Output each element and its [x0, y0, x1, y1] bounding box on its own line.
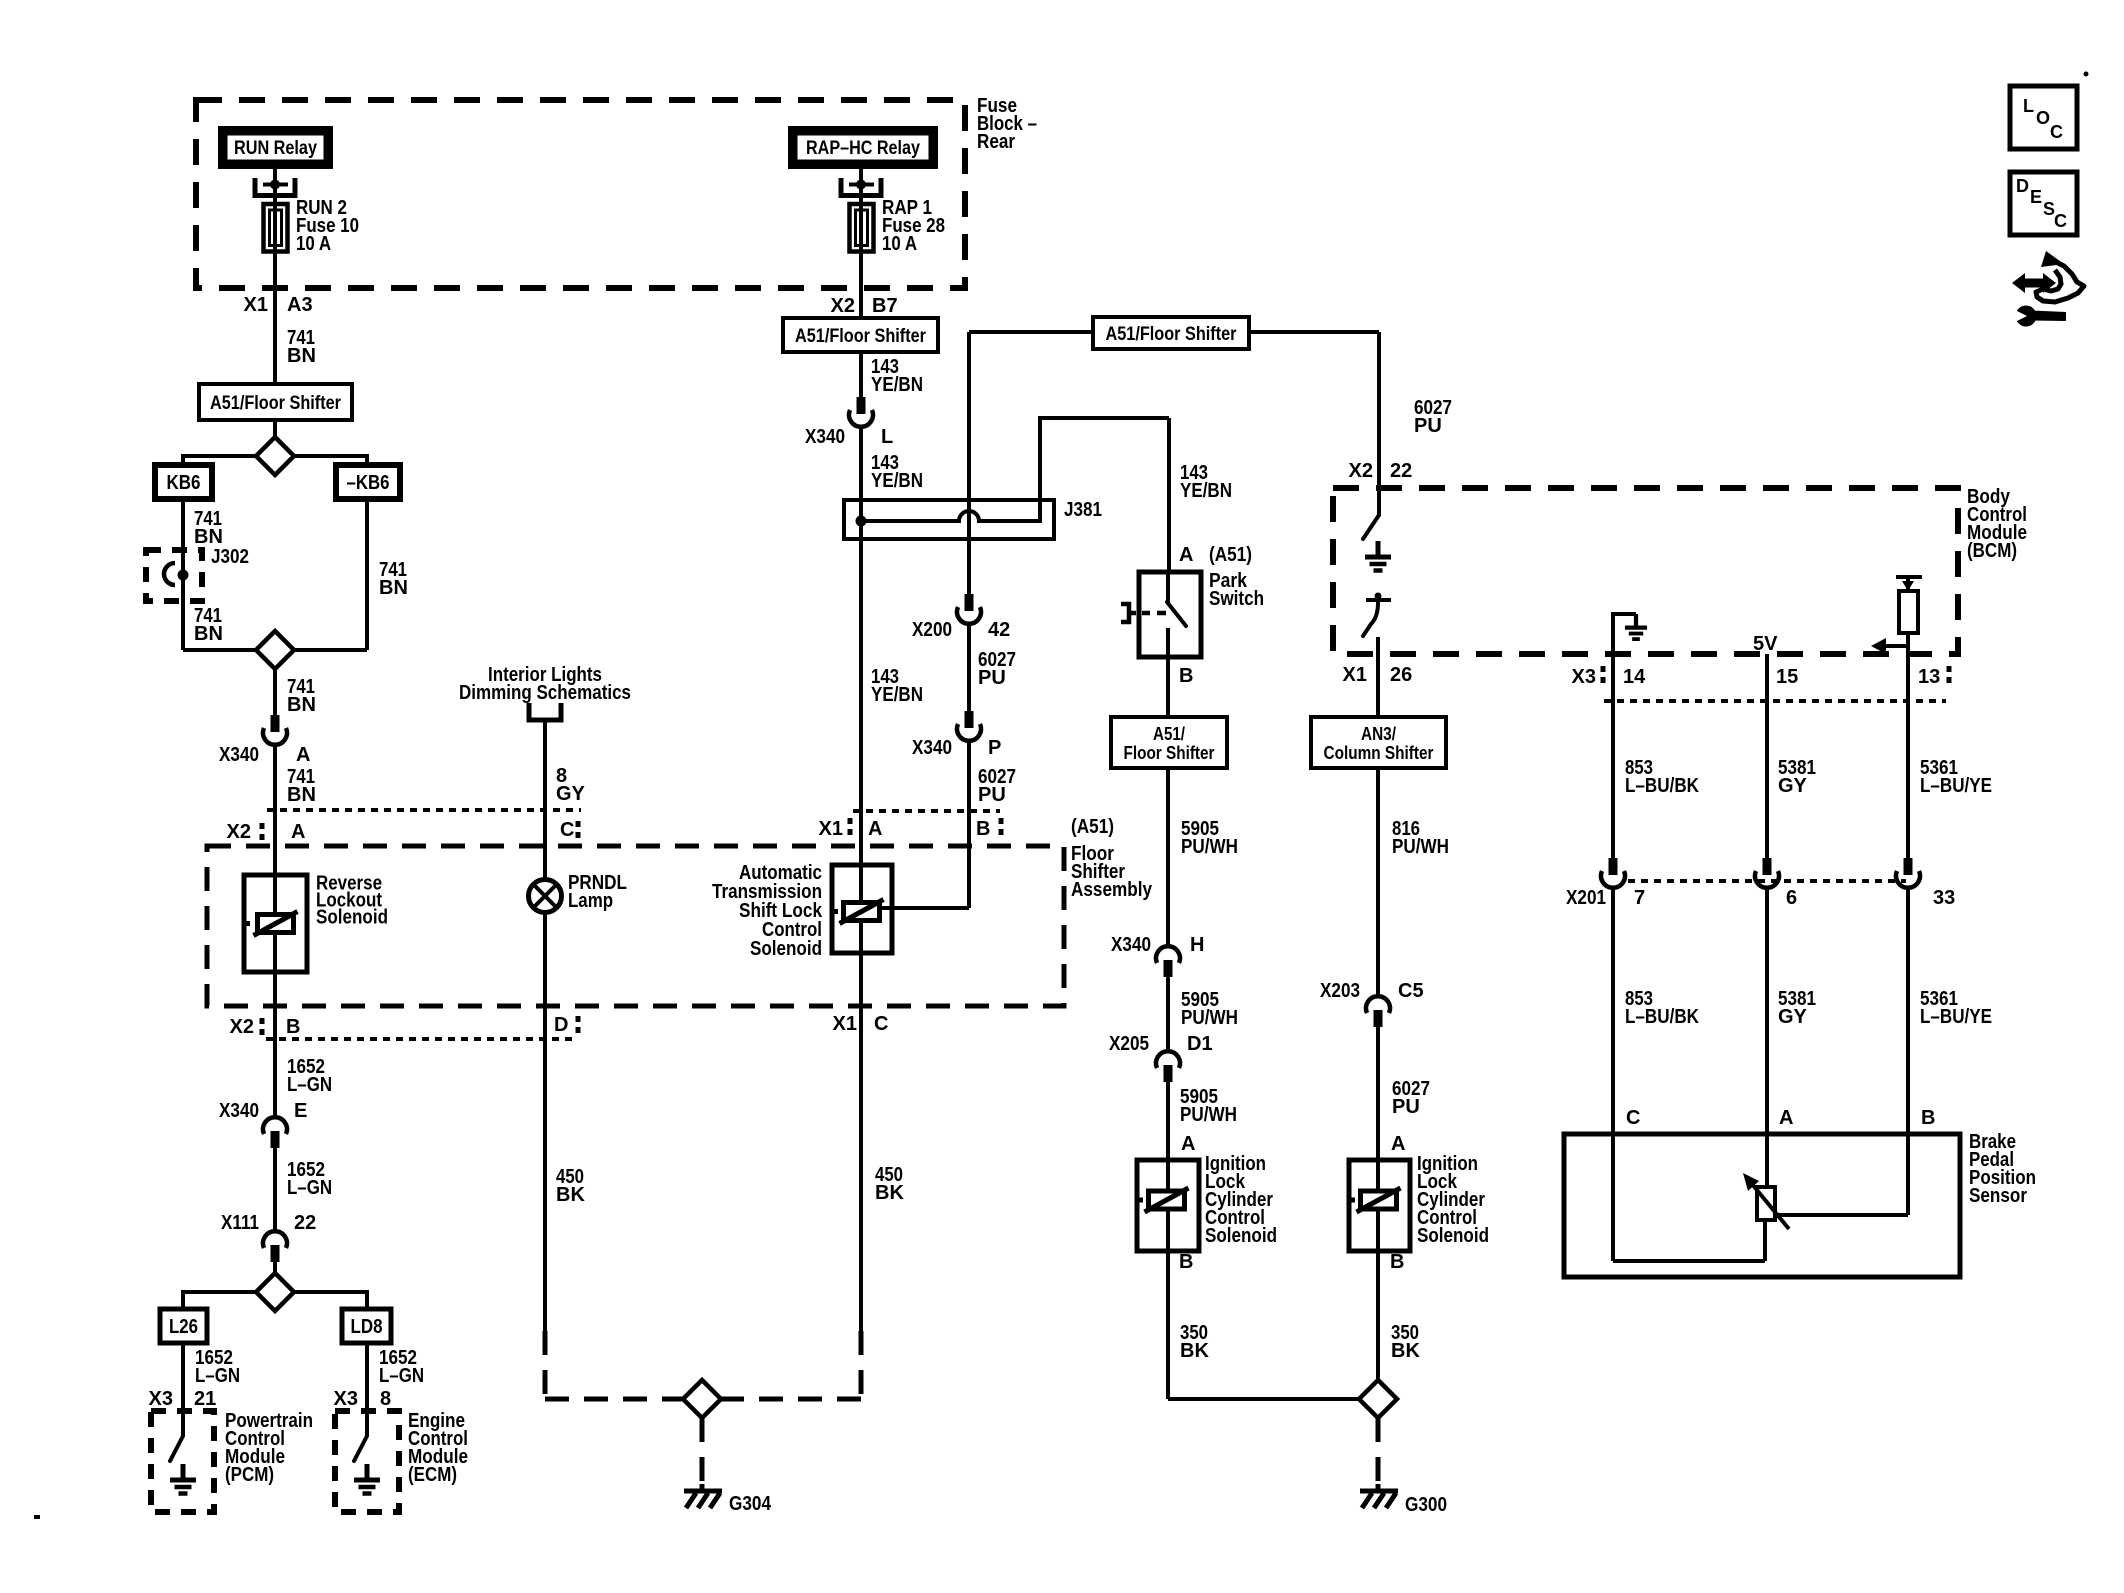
svg-text:B7: B7 [872, 295, 898, 317]
svg-text:X340: X340 [219, 1100, 259, 1122]
svg-text:D: D [554, 1014, 568, 1036]
BCM internal wiper arrow [1876, 644, 1908, 648]
svg-text:(A51): (A51) [1071, 816, 1114, 838]
svg-text:B: B [286, 1016, 300, 1038]
svg-text:BN: BN [287, 784, 316, 806]
svg-text:B: B [1921, 1107, 1935, 1129]
svg-text:Solenoid: Solenoid [316, 907, 388, 929]
potentiometer wiper arrow [1752, 1184, 1789, 1229]
svg-text:BK: BK [1180, 1340, 1209, 1362]
svg-text:PU: PU [1414, 415, 1442, 437]
RAP relay terminal bracket [839, 178, 844, 198]
svg-text:A51/Floor Shifter: A51/Floor Shifter [795, 326, 927, 347]
svg-text:GY: GY [1778, 1006, 1808, 1028]
body control module dashed enclosure [1333, 488, 1958, 654]
wire L26 to PCM (1652 L-GN) [181, 1343, 185, 1436]
relay RAP-HC Relay [788, 126, 938, 169]
connector X201 pin 6 [1755, 858, 1779, 888]
stray mark [2084, 72, 2089, 77]
svg-text:A3: A3 [287, 294, 313, 316]
svg-text:BN: BN [287, 345, 316, 367]
BCM internal voltage bar and resistor (pin 13 branch) [1906, 577, 1910, 591]
svg-text:Assembly: Assembly [1071, 879, 1153, 901]
lamp PRNDL [529, 880, 562, 913]
svg-text:L–BU/YE: L–BU/YE [1920, 1006, 1992, 1028]
wire 143 YE/BN down through J381 to shift lock solenoid [859, 427, 863, 953]
svg-text:X1: X1 [244, 294, 268, 316]
reverse lockout solenoid [244, 875, 307, 972]
node LD8 [342, 1309, 391, 1343]
dashed wire to ground splice [859, 1331, 864, 1399]
svg-text:X201: X201 [1566, 887, 1606, 909]
svg-text:X2: X2 [227, 821, 251, 843]
brake pedal position sensor box [1564, 1134, 1960, 1277]
svg-text:7: 7 [1634, 887, 1645, 909]
svg-text:B: B [1390, 1251, 1404, 1273]
svg-text:33: 33 [1933, 887, 1955, 909]
icon LOC box [2010, 86, 2077, 149]
svg-text:BK: BK [556, 1184, 585, 1206]
svg-text:YE/BN: YE/BN [871, 374, 923, 396]
powertrain control module dashed box [151, 1411, 214, 1512]
BCM internal switch blade (to ground) [1363, 515, 1379, 539]
reference bracket [529, 703, 561, 720]
svg-text:Solenoid: Solenoid [750, 938, 822, 960]
wire 741 BN to reverse lockout solenoid [273, 745, 277, 1117]
svg-text:E: E [2030, 187, 2042, 207]
svg-text:A51/: A51/ [1153, 724, 1185, 744]
svg-text:C: C [2054, 211, 2067, 231]
svg-text:D1: D1 [1187, 1033, 1213, 1055]
wire 6027 PU to shift lock solenoid [967, 741, 971, 908]
svg-text:X111: X111 [221, 1212, 259, 1234]
splice J302 dashed box [146, 550, 202, 601]
engine control module dashed box [335, 1411, 399, 1512]
splice diamond at G300 [1359, 1380, 1397, 1418]
wire branch to L26 and LD8 [183, 1292, 367, 1309]
svg-text:X3: X3 [149, 1388, 173, 1410]
splice J381 box [844, 500, 1054, 539]
wire 350 BK (right solenoid to splice) [1376, 1251, 1380, 1380]
dashed wire to ground G300 [1376, 1418, 1381, 1485]
net label box A51/Floor Shifter (center) [783, 318, 938, 352]
fuse RAP 1, Fuse 28, 10 A [850, 204, 874, 252]
BCM internal ground (pin 14 branch) [1613, 614, 1636, 654]
svg-text:X203: X203 [1320, 980, 1360, 1002]
svg-text:C: C [1626, 1107, 1640, 1129]
J381 internal jumper with hop [856, 516, 867, 527]
wire 143 YE/BN to park switch [1167, 418, 1171, 573]
node L26 [160, 1309, 207, 1343]
splice J302 hook and junction dot [164, 563, 175, 585]
svg-text:PU/WH: PU/WH [1181, 1007, 1238, 1029]
wire 5381 GY (BCM to X201) [1765, 654, 1769, 858]
wire 853 L-BU/BK (X201 to sensor) [1611, 888, 1615, 1134]
svg-text:A: A [296, 744, 310, 766]
PCM internal ground [170, 1464, 196, 1494]
wire 5905 PU/WH to ignition lock solenoid [1166, 1082, 1170, 1160]
svg-text:L: L [2023, 96, 2034, 116]
wire from A51 box to splice [273, 420, 277, 437]
svg-text:Switch: Switch [1209, 588, 1264, 610]
svg-text:26: 26 [1390, 664, 1412, 686]
svg-text:L26: L26 [169, 1316, 198, 1338]
ECM internal switch blade [354, 1436, 367, 1461]
sensor internal potentiometer [1765, 1134, 1769, 1187]
icon DESC box [2010, 172, 2077, 235]
svg-text:X1: X1 [833, 1013, 857, 1035]
wire LD8 to ECM (1652 L-GN) [365, 1343, 369, 1436]
svg-text:6: 6 [1786, 887, 1797, 909]
automatic transmission shift lock control solenoid [832, 865, 892, 953]
wire A51/Floor Shifter right branch (top horizontal) [969, 330, 1379, 334]
svg-text:PU/WH: PU/WH [1180, 1104, 1237, 1126]
svg-text:L: L [881, 426, 893, 448]
wire 5381 GY (X201 to sensor) [1765, 888, 1769, 1134]
fuse block rear dashed enclosure [196, 100, 965, 288]
wire 450 BK from PRNDL lamp [543, 913, 547, 1331]
switch Park Switch [1139, 572, 1201, 657]
wire branch to KB6 and -KB6 [183, 456, 367, 465]
svg-text:BN: BN [194, 623, 223, 645]
svg-text:C5: C5 [1398, 980, 1424, 1002]
svg-text:Solenoid: Solenoid [1417, 1225, 1489, 1247]
svg-text:A: A [1181, 1133, 1195, 1155]
svg-text:X340: X340 [912, 737, 952, 759]
svg-text:PU: PU [978, 667, 1006, 689]
wire rejoining splice [183, 648, 367, 652]
wire 5905 PU/WH to X340-H [1166, 768, 1170, 946]
node -KB6 [336, 465, 400, 499]
svg-text:(A51): (A51) [1209, 544, 1252, 566]
wire 450 BK from shift lock solenoid [859, 953, 863, 1331]
ECM internal ground [354, 1464, 380, 1494]
svg-text:X205: X205 [1109, 1033, 1149, 1055]
svg-text:O: O [2036, 108, 2050, 128]
svg-text:D: D [2016, 176, 2029, 196]
svg-text:X2: X2 [230, 1016, 254, 1038]
svg-text:PU: PU [1392, 1096, 1420, 1118]
RUN relay terminal bracket [253, 178, 258, 198]
svg-text:L–BU/YE: L–BU/YE [1920, 775, 1992, 797]
svg-text:A: A [291, 821, 305, 843]
svg-text:Lamp: Lamp [568, 890, 613, 912]
svg-text:X1: X1 [1343, 664, 1367, 686]
svg-text:22: 22 [1390, 460, 1412, 482]
icon double arrow with wrench [2012, 273, 2056, 293]
wire 143 YE/BN from A51 box to X340 [859, 352, 863, 398]
ground G300 [1360, 1484, 1398, 1508]
connector X200 pin 42 [957, 594, 981, 624]
svg-text:BN: BN [379, 577, 408, 599]
svg-text:X3: X3 [1572, 666, 1596, 688]
svg-text:L–BU/BK: L–BU/BK [1625, 1006, 1699, 1028]
svg-text:PU/WH: PU/WH [1181, 836, 1238, 858]
svg-text:J381: J381 [1064, 499, 1102, 521]
svg-text:YE/BN: YE/BN [871, 470, 923, 492]
svg-text:(PCM): (PCM) [225, 1464, 274, 1486]
svg-text:YE/BN: YE/BN [871, 684, 923, 706]
net label box A51/Floor Shifter (right) [1093, 317, 1249, 349]
net label box A51/Floor Shifter [199, 384, 352, 420]
connector X201 pin 33 [1896, 858, 1920, 888]
wire from RUN Relay to A51/Floor Shifter (741 BN) [273, 169, 277, 384]
svg-text:L–GN: L–GN [287, 1074, 332, 1096]
svg-text:BN: BN [287, 694, 316, 716]
splice diamond (741 BN rejoin) [256, 631, 294, 669]
svg-text:13: 13 [1918, 666, 1940, 688]
svg-text:C: C [560, 819, 574, 841]
svg-text:A: A [1779, 1107, 1793, 1129]
svg-text:YE/BN: YE/BN [1180, 480, 1232, 502]
wire 6027 PU down to BCM [1377, 332, 1381, 515]
svg-text:Sensor: Sensor [1969, 1185, 2027, 1207]
wire to splice diamond [273, 1262, 277, 1273]
svg-text:L–BU/BK: L–BU/BK [1625, 775, 1699, 797]
wire 816 PU/WH to X203 [1376, 768, 1380, 996]
svg-text:AN3/: AN3/ [1361, 724, 1396, 744]
dashed wire to ground splice [543, 1331, 548, 1399]
svg-text:X2: X2 [831, 295, 855, 317]
splice diamond (741 BN branch) [256, 437, 294, 475]
svg-text:PU: PU [978, 784, 1006, 806]
svg-text:Rear: Rear [977, 131, 1015, 153]
svg-text:X340: X340 [805, 426, 845, 448]
svg-text:(ECM): (ECM) [408, 1464, 457, 1486]
wire 853 L-BU/BK (BCM to X201) [1611, 654, 1615, 858]
svg-text:B: B [1179, 665, 1193, 687]
svg-text:22: 22 [294, 1212, 316, 1234]
wire KB6 down through J302 (741 BN) [181, 499, 185, 650]
connector X340 pin A [263, 715, 287, 745]
ignition lock cylinder control solenoid (left) [1137, 1160, 1199, 1251]
BCM internal ground [1365, 541, 1391, 571]
svg-text:(BCM): (BCM) [1967, 540, 2017, 562]
svg-text:Column Shifter: Column Shifter [1324, 743, 1434, 763]
svg-text:J302: J302 [211, 546, 249, 568]
svg-text:A: A [868, 818, 882, 840]
svg-text:21: 21 [194, 1388, 216, 1410]
svg-text:GY: GY [556, 783, 586, 805]
svg-text:X2: X2 [1349, 460, 1373, 482]
svg-text:A51/Floor Shifter: A51/Floor Shifter [1106, 324, 1238, 345]
dashed wire to ground G304 [700, 1418, 705, 1485]
svg-text:RAP–HC Relay: RAP–HC Relay [806, 138, 920, 159]
svg-text:G304: G304 [729, 1493, 772, 1515]
wire RAP-HC relay to fuse (inside fuse block) [859, 169, 863, 318]
svg-text:X200: X200 [912, 619, 952, 641]
node KB6 [155, 465, 212, 499]
svg-text:C: C [2050, 122, 2063, 142]
connector X201 pin 7 [1601, 858, 1625, 888]
svg-text:10 A: 10 A [296, 233, 331, 255]
ground G304 [684, 1484, 722, 1508]
svg-text:RUN Relay: RUN Relay [234, 138, 317, 159]
wire 6027 PU [967, 624, 971, 711]
splice diamond at G304 [683, 1380, 721, 1418]
wire -KB6 down (741 BN) [365, 499, 369, 650]
svg-text:L–GN: L–GN [379, 1365, 424, 1387]
svg-text:X340: X340 [1111, 934, 1151, 956]
floor shifter assembly dashed enclosure [207, 846, 1064, 1006]
svg-text:5V: 5V [1753, 633, 1778, 655]
connector X1 dotted boundary (pins A / B) [853, 809, 1000, 813]
svg-text:H: H [1190, 934, 1204, 956]
wire 5905 PU/WH to X205 [1166, 977, 1170, 1051]
svg-text:LD8: LD8 [351, 1316, 383, 1338]
connector X201 dotted boundary [1628, 879, 1906, 883]
svg-text:14: 14 [1623, 666, 1646, 688]
wire 5361 L-BU/YE (BCM to X201) [1906, 654, 1910, 858]
svg-text:GY: GY [1778, 775, 1808, 797]
svg-text:BK: BK [1391, 1340, 1420, 1362]
svg-text:PU/WH: PU/WH [1392, 836, 1449, 858]
net label box A51/Floor Shifter (park switch) [1111, 717, 1227, 768]
splice diamond (1652 L-GN branch) [256, 1273, 294, 1311]
svg-text:L–GN: L–GN [287, 1177, 332, 1199]
fuse RUN 2, Fuse 10, 10 A [264, 204, 288, 252]
connector X3 dotted boundary (pins 14 / 15 / 13) [1604, 699, 1946, 703]
connector X340 pin P [957, 711, 981, 741]
connector X2 dotted boundary (pins A / C) [267, 808, 581, 812]
svg-text:Solenoid: Solenoid [1205, 1225, 1277, 1247]
connector X340 pin L [849, 397, 873, 427]
svg-text:X340: X340 [219, 744, 259, 766]
connector X2 dotted boundary (pins B / D) [266, 1037, 578, 1041]
svg-text:A: A [1179, 544, 1193, 566]
svg-text:G300: G300 [1405, 1494, 1447, 1516]
stray mark bottom left [34, 1515, 40, 1519]
svg-text:15: 15 [1776, 666, 1798, 688]
svg-text:8: 8 [380, 1388, 391, 1410]
wire park switch to A51/Floor Shifter box [1166, 656, 1170, 717]
net label box AN3/Column Shifter [1311, 717, 1446, 768]
svg-text:Dimming Schematics: Dimming Schematics [459, 682, 631, 704]
svg-text:10 A: 10 A [882, 233, 917, 255]
svg-text:B: B [976, 818, 990, 840]
wire down to connector X340 (741 BN) [273, 669, 277, 716]
svg-text:B: B [1179, 1251, 1193, 1273]
svg-text:–KB6: –KB6 [347, 472, 390, 494]
svg-text:42: 42 [988, 619, 1010, 641]
svg-text:KB6: KB6 [167, 472, 201, 494]
svg-text:P: P [988, 737, 1001, 759]
svg-text:Floor Shifter: Floor Shifter [1124, 743, 1215, 763]
svg-text:A51/Floor Shifter: A51/Floor Shifter [210, 393, 342, 414]
svg-text:E: E [294, 1100, 307, 1122]
wire 8 GY to PRNDL lamp [543, 720, 547, 880]
svg-text:X3: X3 [334, 1388, 358, 1410]
wire 5361 L-BU/YE (X201 to sensor) [1906, 888, 1910, 1134]
wire X340-E to X111 [273, 1148, 277, 1231]
svg-text:BN: BN [194, 526, 223, 548]
svg-text:A: A [1391, 1133, 1405, 1155]
PCM internal switch blade [170, 1436, 183, 1461]
svg-text:L–GN: L–GN [195, 1365, 240, 1387]
relay RUN Relay [218, 126, 333, 169]
svg-text:C: C [874, 1013, 888, 1035]
ignition lock cylinder control solenoid (right) [1349, 1160, 1410, 1251]
svg-text:BK: BK [875, 1182, 904, 1204]
wire 350 BK (left solenoid to splice) [1166, 1251, 1170, 1399]
wire 6027 PU to ignition lock solenoid (right) [1376, 1027, 1380, 1160]
svg-text:X1: X1 [819, 818, 843, 840]
BCM internal switch to column shifter output [1366, 598, 1391, 602]
